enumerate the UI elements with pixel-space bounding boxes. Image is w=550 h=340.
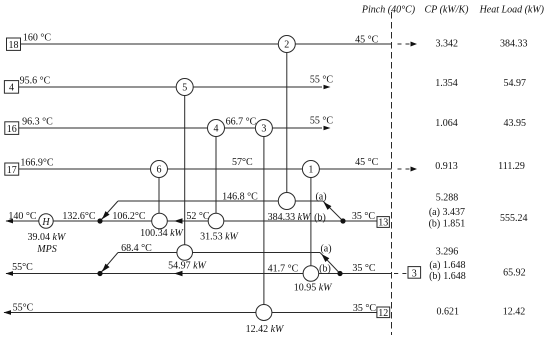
pinch line (dashed vertical at 40C) <box>391 12 393 335</box>
svg-text:13: 13 <box>378 218 388 229</box>
exchanger 2 <box>278 36 295 53</box>
svg-text:(b) 1.851: (b) 1.851 <box>429 218 466 229</box>
exchanger 3 <box>255 120 272 137</box>
cold stream 12 line <box>4 312 377 314</box>
svg-text:H: H <box>41 217 50 228</box>
node merge 13 <box>97 218 102 223</box>
svg-text:17: 17 <box>7 165 17 176</box>
svg-text:6: 6 <box>157 165 162 176</box>
svg-text:55 °C: 55 °C <box>310 116 333 127</box>
stream 4 box <box>4 81 18 94</box>
exchanger link 2 <box>286 44 288 201</box>
heater H <box>39 214 53 228</box>
svg-text:52 °C: 52 °C <box>186 211 209 222</box>
exchanger link 4 <box>215 128 217 221</box>
cold stream 6 main line <box>6 273 392 275</box>
svg-text:31.53 kW: 31.53 kW <box>200 231 239 242</box>
svg-text:111.29: 111.29 <box>498 161 525 172</box>
stream 13 box <box>377 217 389 228</box>
exchanger 4 cold side (31.53 kW) <box>208 213 224 229</box>
node merge 6 <box>97 271 102 276</box>
svg-text:(b): (b) <box>314 212 326 223</box>
svg-text:39.04 kW: 39.04 kW <box>28 232 67 243</box>
svg-text:(b): (b) <box>319 264 331 275</box>
svg-text:16: 16 <box>7 124 17 135</box>
svg-text:100.34 kW: 100.34 kW <box>140 228 184 239</box>
svg-text:12.42: 12.42 <box>503 307 526 318</box>
stream 18 box <box>7 38 21 50</box>
svg-text:45 °C: 45 °C <box>355 34 378 45</box>
cold stream 13 branch (a) line <box>118 200 323 202</box>
branch split diagonal right (6) <box>320 253 340 274</box>
svg-text:Pinch (40°C): Pinch (40°C) <box>361 5 416 16</box>
node split 13 <box>340 218 345 223</box>
stream 18 dashed arrow across pinch <box>398 43 402 45</box>
flow arrowhead row6 <box>174 271 183 276</box>
svg-text:132.6°C: 132.6°C <box>62 211 95 222</box>
svg-text:35 °C: 35 °C <box>353 303 376 314</box>
svg-text:96.3 °C: 96.3 °C <box>22 117 53 128</box>
svg-text:57°C: 57°C <box>232 157 253 168</box>
exchanger 5 cold side (54.97 kW) <box>177 245 193 261</box>
svg-text:160 °C: 160 °C <box>23 33 51 44</box>
svg-text:4: 4 <box>214 124 219 135</box>
svg-text:35 °C: 35 °C <box>352 211 375 222</box>
exchanger 5 <box>176 79 193 96</box>
stream 17 dashed arrow across pinch <box>398 168 402 170</box>
svg-text:Heat Load (kW): Heat Load (kW) <box>479 5 545 16</box>
stream 3 box <box>408 267 421 279</box>
branch merge diagonal left (13) <box>100 201 118 221</box>
svg-text:55 °C: 55 °C <box>310 74 333 85</box>
svg-text:(a): (a) <box>320 243 331 254</box>
stream 17 box <box>5 163 19 175</box>
svg-text:66.7 °C: 66.7 °C <box>226 117 257 128</box>
svg-text:146.8 °C: 146.8 °C <box>222 191 258 202</box>
svg-text:5: 5 <box>182 83 187 94</box>
svg-text:0.913: 0.913 <box>435 161 458 172</box>
stream 12 box <box>377 307 390 318</box>
svg-text:41.7 °C: 41.7 °C <box>268 264 299 275</box>
exchanger 6 <box>151 161 168 178</box>
svg-text:MPS: MPS <box>36 244 56 255</box>
svg-text:45 °C: 45 °C <box>355 157 378 168</box>
dashed link to box 3 <box>394 273 398 275</box>
svg-text:54.97: 54.97 <box>503 78 526 89</box>
svg-text:10.95 kW: 10.95 kW <box>294 283 333 294</box>
svg-text:3: 3 <box>412 268 417 279</box>
svg-text:12: 12 <box>378 308 388 319</box>
svg-text:35 °C: 35 °C <box>352 263 375 274</box>
svg-text:65.92: 65.92 <box>503 268 526 279</box>
svg-text:55°C: 55°C <box>12 262 33 273</box>
svg-text:140 °C: 140 °C <box>8 211 36 222</box>
exchanger 3 cold side (12.42 kW) <box>256 305 272 321</box>
branch merge diagonal left (6) <box>100 253 118 274</box>
svg-text:18: 18 <box>9 40 19 51</box>
stream 17 line (hot) <box>19 168 392 170</box>
exchanger 4 <box>208 120 225 137</box>
exchanger link 1 <box>310 169 312 274</box>
cold stream 6 branch (a) line <box>118 252 320 254</box>
exchanger 2 cold side (384.33 kW) <box>278 193 295 210</box>
svg-text:(a) 3.437: (a) 3.437 <box>429 207 465 218</box>
svg-text:384.33: 384.33 <box>500 39 528 50</box>
svg-text:5.288: 5.288 <box>436 192 459 203</box>
flow arrowhead row5 <box>174 218 183 223</box>
stream 18 line (hot) <box>21 43 392 45</box>
svg-text:3.296: 3.296 <box>436 247 459 258</box>
svg-text:3.342: 3.342 <box>435 39 458 50</box>
node split 6 <box>337 271 342 276</box>
svg-text:106.2°C: 106.2°C <box>112 211 145 222</box>
svg-text:12.42 kW: 12.42 kW <box>246 324 285 335</box>
svg-text:CP (kW/K): CP (kW/K) <box>425 5 470 16</box>
svg-text:68.4 °C: 68.4 °C <box>121 243 152 254</box>
svg-text:55°C: 55°C <box>13 303 34 314</box>
svg-text:95.6 °C: 95.6 °C <box>20 76 51 87</box>
svg-text:4: 4 <box>9 83 14 94</box>
svg-text:384.33 kW: 384.33 kW <box>268 212 312 223</box>
stream 16 line (hot) <box>19 127 322 129</box>
exchanger link 5 <box>184 87 186 253</box>
svg-text:(a) 1.648: (a) 1.648 <box>429 260 465 271</box>
exchanger 1 cold side (10.95 kW) <box>303 266 319 282</box>
svg-text:1.064: 1.064 <box>435 118 458 129</box>
svg-text:(a): (a) <box>315 191 326 202</box>
exchanger link 6 <box>158 169 160 221</box>
svg-text:(b) 1.648: (b) 1.648 <box>429 271 466 282</box>
exchanger 6 cold side (100.34 kW) <box>152 213 168 229</box>
svg-text:54.97 kW: 54.97 kW <box>168 260 207 271</box>
stream 16 box <box>5 122 19 135</box>
cold stream 13 main line <box>6 220 377 222</box>
svg-text:166.9°C: 166.9°C <box>20 157 53 168</box>
exchanger 1 <box>302 161 319 178</box>
svg-text:1: 1 <box>308 165 313 176</box>
svg-text:2: 2 <box>284 40 289 51</box>
svg-text:0.621: 0.621 <box>436 307 459 318</box>
svg-text:1.354: 1.354 <box>435 78 458 89</box>
stream 4 line (hot) <box>19 86 322 88</box>
svg-text:3: 3 <box>261 124 266 135</box>
svg-text:43.95: 43.95 <box>503 118 526 129</box>
branch split diagonal right (13) <box>323 201 343 221</box>
svg-text:555.24: 555.24 <box>500 213 528 224</box>
exchanger link 3 <box>263 128 265 313</box>
